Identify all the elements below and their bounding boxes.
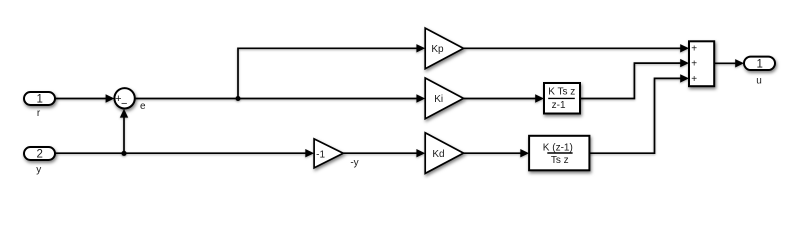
svg-text:y: y bbox=[36, 164, 41, 175]
wire r: inport 1 to sum junction bbox=[55, 94, 114, 102]
svg-text:1: 1 bbox=[36, 94, 42, 106]
wire: gain Kd to discrete derivative bbox=[464, 149, 530, 157]
svg-text:−: − bbox=[121, 98, 127, 110]
svg-text:u: u bbox=[756, 75, 762, 86]
svg-text:z-1: z-1 bbox=[552, 100, 566, 111]
wire: gain Kp to sum block input 1 bbox=[464, 44, 690, 52]
sum block bbox=[689, 41, 714, 86]
node junction on y feedback bbox=[121, 151, 126, 156]
wire y: inport 2 to gain -1 bbox=[55, 149, 314, 157]
svg-text:K Ts z: K Ts z bbox=[548, 87, 575, 98]
wire: discrete integrator to sum block input 2 bbox=[580, 59, 689, 99]
gain Ki bbox=[425, 78, 463, 119]
wire u: sum block to outport bbox=[714, 59, 744, 67]
inport 1 bbox=[24, 92, 55, 106]
svg-text:Ts z: Ts z bbox=[551, 155, 569, 166]
node branch of e to Kp bbox=[236, 96, 241, 101]
wire -y: gain -1 to gain Kd bbox=[343, 149, 425, 157]
discrete integrator block K Ts z / z-1 bbox=[544, 83, 580, 114]
svg-text:1: 1 bbox=[756, 58, 762, 70]
svg-text:+: + bbox=[691, 44, 697, 55]
discrete derivative block K (z-1) / Ts z bbox=[529, 136, 589, 171]
gain Kp bbox=[425, 28, 463, 69]
svg-text:-y: -y bbox=[350, 157, 358, 168]
svg-text:2: 2 bbox=[36, 149, 42, 161]
wire: y junction up into sum junction bbox=[120, 109, 128, 154]
inport 2 bbox=[24, 147, 55, 161]
wire: gain Ki to discrete integrator bbox=[464, 94, 545, 102]
svg-text:e: e bbox=[140, 101, 146, 112]
gain -1 bbox=[314, 139, 343, 168]
svg-text:Kd: Kd bbox=[432, 149, 444, 160]
svg-text:Ki: Ki bbox=[434, 94, 443, 105]
sum junction bbox=[114, 88, 134, 110]
wire e: sum junction to gain Ki bbox=[135, 94, 425, 102]
svg-text:Kp: Kp bbox=[431, 44, 444, 55]
svg-text:+: + bbox=[691, 74, 697, 85]
gain Kd bbox=[425, 133, 463, 174]
wire: branch up and right to gain Kp bbox=[238, 44, 425, 98]
wire: discrete derivative to sum block input 3 bbox=[590, 74, 690, 153]
svg-text:-1: -1 bbox=[316, 149, 325, 160]
outport 1 bbox=[744, 57, 775, 71]
svg-text:K (z-1): K (z-1) bbox=[543, 142, 573, 153]
svg-text:+: + bbox=[691, 59, 697, 70]
